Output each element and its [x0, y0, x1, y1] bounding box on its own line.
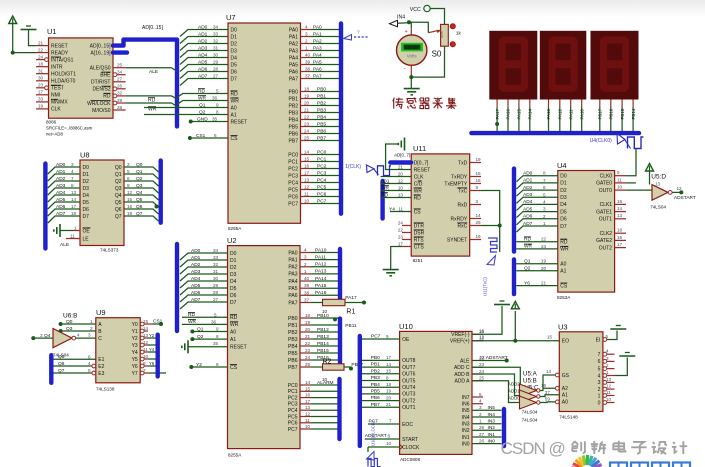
- svg-text:9: 9: [617, 170, 620, 175]
- svg-text:A0: A0: [230, 329, 236, 335]
- svg-text:VCC: VCC: [410, 7, 421, 13]
- svg-text:AD6: AD6: [198, 66, 208, 72]
- svg-text:10: 10: [617, 185, 623, 190]
- svg-text:7: 7: [543, 178, 546, 183]
- svg-text:8253A: 8253A: [557, 295, 571, 300]
- svg-text:U11: U11: [413, 144, 426, 153]
- svg-text:PC0: PC0: [288, 152, 298, 158]
- svg-text:33: 33: [38, 97, 44, 102]
- svg-text:27: 27: [213, 297, 219, 302]
- svg-text:R2: R2: [323, 359, 332, 366]
- svg-text:PA16: PA16: [506, 109, 511, 120]
- svg-text:38: 38: [304, 290, 310, 295]
- svg-text:RD: RD: [103, 94, 111, 100]
- svg-text:8: 8: [216, 334, 219, 339]
- svg-text:PA10: PA10: [315, 247, 327, 253]
- svg-text:2: 2: [305, 39, 308, 44]
- svg-text:PC2: PC2: [288, 166, 298, 172]
- svg-text:18: 18: [476, 178, 482, 183]
- svg-text:PA11: PA11: [315, 254, 326, 260]
- svg-text:PB2: PB2: [317, 100, 326, 106]
- svg-text:17: 17: [305, 399, 311, 404]
- svg-text:U6:B: U6:B: [63, 313, 77, 320]
- svg-text:CS1: CS1: [196, 133, 206, 139]
- svg-text:21: 21: [541, 281, 547, 286]
- svg-text:VREF(-): VREF(-): [451, 332, 470, 338]
- svg-text:Y6: Y6: [132, 364, 138, 370]
- svg-text:CS: CS: [230, 365, 238, 371]
- svg-text:D1: D1: [560, 181, 567, 187]
- svg-text:D1: D1: [231, 34, 238, 40]
- svg-text:29: 29: [213, 283, 219, 288]
- svg-text:12: 12: [479, 335, 485, 340]
- svg-text:28: 28: [479, 425, 485, 430]
- svg-text:PB6: PB6: [317, 128, 326, 134]
- svg-text:IN6: IN6: [462, 402, 470, 408]
- svg-text:Q1: Q1: [524, 259, 531, 265]
- svg-text:16: 16: [127, 204, 133, 209]
- svg-text:37: 37: [304, 298, 310, 303]
- svg-text:TxEMPTY: TxEMPTY: [444, 181, 467, 187]
- svg-text:24: 24: [479, 369, 485, 374]
- svg-text:17: 17: [398, 241, 404, 246]
- svg-text:AD5: AD5: [56, 197, 66, 203]
- svg-text:3: 3: [598, 380, 601, 386]
- svg-text:6: 6: [127, 176, 130, 181]
- svg-text:AD0: AD0: [198, 24, 208, 30]
- svg-text:PA2: PA2: [288, 265, 297, 271]
- svg-text:D3: D3: [560, 195, 567, 201]
- svg-text:2: 2: [598, 387, 601, 393]
- svg-text:PC2: PC2: [317, 163, 327, 169]
- svg-text:ADSTART: ADSTART: [674, 195, 696, 201]
- svg-text:D3: D3: [230, 272, 237, 278]
- svg-text:PA11: PA11: [568, 109, 573, 120]
- svg-text:1k: 1k: [456, 31, 462, 36]
- svg-text:Q3: Q3: [66, 326, 73, 332]
- svg-text:35: 35: [212, 117, 218, 122]
- svg-text:A0: A0: [562, 400, 568, 406]
- svg-text:15: 15: [386, 369, 392, 374]
- svg-text:IN2: IN2: [462, 428, 470, 434]
- svg-text:PB4: PB4: [317, 114, 326, 120]
- svg-text:16: 16: [305, 393, 311, 398]
- svg-text:24: 24: [305, 355, 311, 360]
- svg-text:25: 25: [476, 220, 482, 225]
- svg-text:15: 15: [547, 335, 553, 340]
- svg-text:RD: RD: [524, 237, 531, 243]
- svg-text:39: 39: [304, 283, 310, 288]
- svg-text:1(CLK): 1(CLK): [345, 164, 361, 170]
- svg-text:D7: D7: [230, 300, 237, 306]
- svg-text:12: 12: [143, 340, 149, 345]
- svg-text:CS: CS: [231, 136, 239, 142]
- svg-text:11: 11: [617, 177, 622, 182]
- svg-text:19: 19: [476, 157, 482, 162]
- svg-text:Q1: Q1: [199, 102, 206, 108]
- svg-text:Q6: Q6: [136, 204, 143, 210]
- svg-text:E1: E1: [98, 357, 104, 363]
- svg-text:Q0: Q0: [66, 319, 73, 325]
- svg-text:PA2: PA2: [289, 41, 298, 47]
- svg-text:Q2: Q2: [199, 109, 206, 115]
- svg-text:OUT2: OUT2: [599, 245, 613, 251]
- svg-text:IN2: IN2: [488, 425, 496, 431]
- svg-text:11: 11: [606, 390, 611, 395]
- svg-text:17: 17: [386, 355, 392, 360]
- svg-text:D0: D0: [230, 251, 237, 257]
- svg-text:PC1: PC1: [288, 159, 298, 165]
- svg-text:OUT4: OUT4: [402, 385, 416, 391]
- svg-text:PC7: PC7: [288, 201, 298, 207]
- svg-text:8: 8: [386, 375, 389, 380]
- svg-text:IN0: IN0: [462, 441, 470, 447]
- svg-text:D6: D6: [560, 217, 567, 223]
- svg-text:PA3: PA3: [289, 48, 298, 54]
- svg-text:D4: D4: [230, 279, 237, 285]
- svg-text:10: 10: [386, 441, 392, 446]
- svg-text:29: 29: [213, 60, 219, 65]
- svg-text:19: 19: [127, 211, 133, 216]
- svg-text:10: 10: [304, 199, 310, 204]
- svg-text:9: 9: [386, 334, 389, 339]
- svg-text:D7: D7: [231, 76, 238, 82]
- svg-text:AD[0..15]: AD[0..15]: [142, 25, 163, 31]
- svg-text:IN4: IN4: [488, 412, 496, 418]
- svg-text:5: 5: [598, 366, 601, 372]
- svg-text:3: 3: [88, 333, 91, 338]
- svg-text:CTS: CTS: [414, 244, 425, 250]
- svg-text:27: 27: [213, 74, 219, 79]
- svg-text:22: 22: [480, 355, 486, 360]
- svg-text:27: 27: [479, 432, 485, 437]
- svg-text:Q4: Q4: [136, 190, 143, 196]
- svg-text:5: 5: [479, 392, 482, 397]
- svg-text:Y0: Y0: [132, 322, 138, 328]
- svg-text:1: 1: [543, 221, 546, 226]
- svg-text:13: 13: [398, 192, 404, 197]
- svg-text:PC6: PC6: [288, 421, 298, 427]
- svg-text:5: 5: [127, 169, 130, 174]
- svg-text:23: 23: [305, 348, 311, 353]
- svg-text:PC3: PC3: [317, 170, 327, 176]
- svg-text:4: 4: [88, 361, 91, 366]
- svg-text:PC4: PC4: [288, 180, 298, 186]
- svg-text:Y1: Y1: [132, 329, 138, 335]
- svg-text:Q7: Q7: [115, 214, 122, 220]
- svg-text:PA14: PA14: [315, 276, 327, 282]
- svg-text:D7: D7: [560, 224, 567, 230]
- svg-text:NMI: NMI: [51, 93, 60, 99]
- svg-text:PC6: PC6: [288, 194, 298, 200]
- svg-text:GND: GND: [197, 116, 208, 122]
- svg-text:MN/MX: MN/MX: [51, 100, 68, 106]
- svg-text:8: 8: [543, 171, 546, 176]
- svg-text:CS: CS: [560, 283, 568, 289]
- svg-text:EO: EO: [562, 339, 569, 345]
- svg-text:PB3: PB3: [317, 107, 326, 113]
- svg-text:D3: D3: [83, 186, 90, 192]
- svg-text:D2: D2: [560, 188, 567, 194]
- svg-text:2: 2: [90, 326, 93, 331]
- svg-text:PA5: PA5: [313, 59, 322, 65]
- svg-text:AD1: AD1: [191, 255, 201, 261]
- svg-text:24: 24: [304, 129, 310, 134]
- svg-text:40: 40: [305, 53, 311, 58]
- svg-text:PC3: PC3: [288, 402, 298, 408]
- svg-text:22: 22: [304, 115, 310, 120]
- svg-text:11: 11: [143, 347, 148, 352]
- svg-text:34: 34: [213, 25, 219, 30]
- svg-text:WR/LOCK: WR/LOCK: [87, 101, 111, 107]
- svg-text:32: 32: [117, 91, 123, 96]
- svg-text:AD7: AD7: [523, 221, 533, 227]
- svg-text:4: 4: [598, 373, 601, 379]
- svg-text:C: C: [98, 336, 102, 342]
- svg-text:19: 19: [386, 389, 392, 394]
- svg-text:25: 25: [117, 63, 123, 68]
- svg-text:D7: D7: [83, 214, 90, 220]
- svg-text:INTR: INTR: [51, 65, 63, 71]
- svg-text:19: 19: [541, 259, 547, 264]
- svg-text:16: 16: [541, 383, 547, 388]
- svg-text:19: 19: [304, 94, 310, 99]
- svg-text:A0: A0: [231, 105, 237, 111]
- svg-text:IN1: IN1: [462, 435, 470, 441]
- svg-text:AD3: AD3: [56, 183, 66, 189]
- svg-text:Q2: Q2: [115, 179, 122, 185]
- svg-text:IN0: IN0: [488, 438, 496, 444]
- svg-text:ALE/QS0: ALE/QS0: [90, 66, 111, 72]
- svg-text:25: 25: [479, 376, 485, 381]
- svg-text:20: 20: [541, 266, 547, 271]
- svg-text:7: 7: [389, 419, 392, 424]
- svg-text:PC1: PC1: [317, 156, 327, 162]
- svg-text:PB14: PB14: [317, 341, 329, 347]
- svg-text:1: 1: [598, 393, 601, 399]
- svg-text:Q5: Q5: [115, 200, 122, 206]
- svg-text:17: 17: [71, 204, 77, 209]
- svg-text:WR: WR: [414, 188, 423, 194]
- svg-text:21: 21: [305, 334, 311, 339]
- svg-text:6: 6: [598, 359, 601, 365]
- svg-text:TxRDY: TxRDY: [451, 174, 468, 180]
- svg-text:D0: D0: [231, 27, 238, 33]
- svg-text:READY: READY: [51, 50, 69, 56]
- svg-text:2: 2: [606, 363, 609, 368]
- svg-text:D6: D6: [231, 69, 238, 75]
- svg-text:11: 11: [70, 233, 75, 238]
- svg-text:17: 17: [617, 242, 623, 247]
- svg-text:PC0: PC0: [288, 383, 298, 389]
- svg-text:12: 12: [127, 190, 133, 195]
- svg-text:6: 6: [216, 362, 219, 367]
- svg-text:PB1: PB1: [288, 323, 298, 329]
- svg-text:14: 14: [617, 206, 623, 211]
- svg-text:PB3: PB3: [289, 110, 299, 116]
- svg-text:RESET: RESET: [231, 119, 248, 125]
- svg-text:PB0: PB0: [288, 316, 298, 322]
- svg-text:EI: EI: [596, 337, 601, 343]
- svg-text:AD6: AD6: [523, 214, 533, 220]
- svg-text:DSR: DSR: [414, 230, 425, 236]
- svg-text:U4(CLK0): U4(CLK0): [590, 138, 613, 144]
- svg-text:3: 3: [606, 356, 609, 361]
- svg-text:OUT1: OUT1: [599, 217, 613, 223]
- svg-text:OUT0: OUT0: [599, 188, 613, 194]
- svg-text:25: 25: [305, 362, 311, 367]
- svg-text:CS: CS: [414, 209, 422, 215]
- svg-text:35: 35: [213, 341, 219, 346]
- svg-text:PB10: PB10: [317, 313, 329, 319]
- svg-text:AD6: AD6: [191, 290, 201, 296]
- svg-text:Y6: Y6: [149, 361, 155, 366]
- svg-text:39: 39: [305, 60, 311, 65]
- svg-text:74LS04: 74LS04: [522, 410, 538, 415]
- svg-text:PB1: PB1: [371, 362, 380, 368]
- svg-text:D0: D0: [560, 174, 567, 180]
- svg-text:15: 15: [476, 171, 482, 176]
- svg-text:D6: D6: [83, 207, 90, 213]
- svg-text:PC7: PC7: [288, 427, 298, 433]
- svg-text:22: 22: [398, 227, 404, 232]
- svg-text:OUT3: OUT3: [402, 392, 416, 398]
- svg-text:PB16: PB16: [609, 108, 614, 119]
- svg-text:WR: WR: [381, 185, 390, 191]
- svg-text:ADD B: ADD B: [454, 372, 470, 378]
- svg-text:PA7: PA7: [288, 300, 297, 306]
- svg-text:AD4: AD4: [198, 52, 208, 58]
- svg-text:PA0: PA0: [289, 27, 298, 33]
- svg-text:S0: S0: [432, 49, 442, 58]
- svg-text:PA0: PA0: [313, 24, 322, 30]
- svg-text:11: 11: [398, 206, 403, 211]
- svg-text:26: 26: [117, 84, 123, 89]
- svg-text:D2: D2: [83, 179, 90, 185]
- svg-text:U2: U2: [227, 236, 237, 245]
- svg-text:2: 2: [543, 214, 546, 219]
- svg-text:6: 6: [214, 133, 217, 138]
- svg-text:13: 13: [71, 190, 77, 195]
- svg-text:38: 38: [305, 67, 311, 72]
- svg-text:6: 6: [543, 185, 546, 190]
- svg-text:AD7: AD7: [191, 297, 201, 303]
- svg-text:Q1: Q1: [197, 326, 204, 332]
- svg-text:PC1: PC1: [288, 389, 298, 395]
- svg-text:GATE2: GATE2: [596, 238, 612, 244]
- svg-text:Q0: Q0: [115, 165, 122, 171]
- svg-text:A1: A1: [231, 112, 237, 118]
- svg-text:PB0: PB0: [289, 89, 299, 95]
- svg-text:AD[0..15]: AD[0..15]: [90, 43, 111, 49]
- svg-text:OUT6: OUT6: [402, 372, 416, 378]
- svg-text:AD0: AD0: [191, 248, 201, 254]
- svg-text:CS1: CS1: [153, 319, 163, 325]
- svg-text:15: 15: [127, 197, 133, 202]
- svg-text:RD: RD: [381, 192, 388, 198]
- svg-text:U3: U3: [558, 323, 568, 332]
- svg-text:12: 12: [606, 384, 612, 389]
- svg-text:9: 9: [216, 103, 219, 108]
- svg-text:IN4: IN4: [462, 415, 470, 421]
- svg-text:OUT8: OUT8: [402, 358, 416, 364]
- svg-text:PA5: PA5: [289, 62, 298, 68]
- svg-text:ADD2: ADD2: [508, 382, 520, 387]
- svg-text:TxC: TxC: [458, 188, 468, 194]
- svg-text:23: 23: [479, 362, 485, 367]
- svg-text:PB11: PB11: [345, 323, 357, 329]
- svg-text:74LS148: 74LS148: [559, 415, 578, 420]
- svg-text:D5: D5: [230, 286, 237, 292]
- svg-text:WR: WR: [230, 322, 239, 328]
- svg-text:8: 8: [71, 183, 74, 188]
- svg-text:0: 0: [598, 400, 601, 406]
- svg-text:16: 16: [304, 164, 310, 169]
- svg-text:PC4: PC4: [288, 408, 298, 414]
- svg-text:20: 20: [304, 101, 310, 106]
- svg-text:PB17: PB17: [598, 108, 603, 119]
- svg-text:WR: WR: [198, 95, 207, 101]
- svg-text:PA16: PA16: [315, 290, 327, 296]
- svg-text:PB13: PB13: [317, 334, 329, 340]
- svg-text:16: 16: [479, 328, 485, 333]
- svg-text:20: 20: [305, 327, 311, 332]
- svg-text:1: 1: [479, 419, 482, 424]
- svg-text:PB5: PB5: [289, 124, 299, 130]
- svg-text:PA13: PA13: [546, 109, 551, 120]
- svg-text:20: 20: [398, 171, 404, 176]
- svg-text:OE: OE: [402, 337, 410, 343]
- svg-text:1: 1: [305, 46, 308, 51]
- svg-text:5: 5: [216, 89, 219, 94]
- svg-text:SYNDET: SYNDET: [447, 237, 467, 243]
- svg-text:Y6: Y6: [524, 280, 530, 286]
- svg-text:RTS: RTS: [414, 237, 425, 243]
- svg-text:RxRDY: RxRDY: [451, 216, 468, 222]
- svg-text:DTR: DTR: [414, 223, 425, 229]
- svg-text:14: 14: [71, 197, 77, 202]
- svg-text:U5:D: U5:D: [651, 174, 666, 181]
- svg-text:ADSTART: ADSTART: [486, 355, 508, 361]
- svg-text:WR: WR: [524, 244, 533, 250]
- svg-text:23: 23: [304, 122, 310, 127]
- svg-text:36: 36: [211, 319, 217, 324]
- svg-text:32: 32: [213, 262, 219, 267]
- svg-text:U9: U9: [96, 308, 106, 317]
- svg-text:1: 1: [74, 225, 77, 230]
- svg-text:CLK0: CLK0: [600, 174, 613, 180]
- svg-text:5: 5: [606, 334, 609, 339]
- svg-text:RD: RD: [230, 315, 238, 321]
- svg-text:Q4: Q4: [115, 193, 122, 199]
- svg-text:D6: D6: [230, 293, 237, 299]
- svg-text:RESET: RESET: [51, 43, 68, 49]
- svg-text:20: 20: [386, 395, 392, 400]
- svg-text:START: START: [402, 437, 418, 443]
- svg-text:CLK: CLK: [51, 107, 61, 113]
- svg-text:Q5: Q5: [136, 197, 143, 203]
- svg-text:Q1: Q1: [115, 172, 122, 178]
- svg-text:Volts: Volts: [407, 53, 418, 58]
- svg-text:WR: WR: [560, 247, 569, 253]
- svg-text:PB3: PB3: [288, 337, 298, 343]
- svg-text:74LS04: 74LS04: [650, 205, 666, 210]
- svg-text:24: 24: [398, 220, 404, 225]
- svg-text:Q2: Q2: [524, 266, 531, 272]
- svg-text:HLDA/GT0: HLDA/GT0: [51, 79, 76, 85]
- svg-text:U4: U4: [557, 161, 567, 170]
- svg-text:CSDN @: CSDN @: [501, 439, 565, 458]
